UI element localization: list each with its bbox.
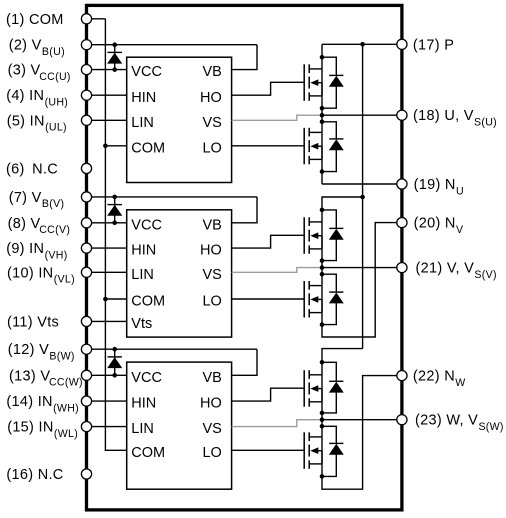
- terminal pin 7: [81, 192, 91, 202]
- node Q3 drain-diode junction: [320, 208, 325, 213]
- terminal pin 15: [81, 422, 91, 432]
- wire V output to pin21: [322, 267, 402, 269]
- node P rail junction: [360, 42, 365, 47]
- transistor Q4 (V low-side MOSFET): [304, 281, 322, 318]
- transistor Q5 (W high-side MOSFET): [304, 370, 322, 407]
- driver IC U2 (V-phase HVIC with Vts): [127, 210, 232, 337]
- svg-text:COM: COM: [131, 445, 165, 461]
- svg-text:VS: VS: [202, 115, 221, 131]
- terminal pin 13: [81, 370, 91, 380]
- wire U1 VB to pin2 rail: [232, 45, 257, 70]
- wire P distribution vertical: [362, 44, 364, 348]
- node V phase diode anode junction: [320, 258, 325, 263]
- node Q4 drain-diode junction: [320, 272, 325, 277]
- diode D8 (Q5 body diode): [322, 362, 343, 413]
- terminal pin 16: [81, 469, 91, 479]
- terminal pin 9: [81, 243, 91, 253]
- wire P branch to Q5 drain: [322, 349, 363, 477]
- terminal pin 5: [81, 115, 91, 125]
- svg-text:VCC: VCC: [131, 370, 162, 386]
- terminal pin 4: [81, 90, 91, 100]
- node U phase diode anode junction: [320, 106, 325, 111]
- wire U3 HO to Q5 gate: [232, 388, 305, 401]
- svg-text:HO: HO: [200, 396, 222, 412]
- terminal pin 10: [81, 267, 91, 277]
- svg-text:VS: VS: [202, 267, 221, 283]
- node Q5 drain-diode junction: [320, 360, 325, 365]
- node W phase output junction: [320, 417, 325, 422]
- terminal pin 14: [81, 396, 91, 406]
- wire P branch to Q3 drain: [322, 197, 363, 325]
- svg-text:(17) P: (17) P: [413, 37, 454, 53]
- svg-text:COM: COM: [131, 140, 165, 156]
- wire U3 VB to pin12 rail: [232, 349, 257, 375]
- svg-text:LO: LO: [202, 140, 221, 156]
- wire pin7 VB(V): [87, 196, 258, 198]
- wire P rail to pin17: [322, 43, 402, 45]
- terminal pin 2: [81, 40, 91, 50]
- transistor Q1 (U high-side MOSFET): [304, 64, 322, 101]
- diode D6 (Q3 body diode): [322, 210, 343, 261]
- wire U2 LO to Q4 gate: [232, 298, 305, 300]
- terminal pin 6: [81, 163, 91, 173]
- node COM-U2 junction: [103, 297, 108, 302]
- wire U2 VS sense (gray): [232, 268, 322, 273]
- svg-text:(11) Vts: (11) Vts: [7, 314, 59, 330]
- svg-text:Vts: Vts: [131, 316, 152, 332]
- wire pin4 IN(UH): [87, 94, 127, 96]
- wire pin10 IN(VL): [87, 271, 127, 273]
- wire U1 HO to Q1 gate: [232, 82, 305, 95]
- svg-text:LIN: LIN: [131, 267, 154, 283]
- svg-text:HIN: HIN: [131, 243, 156, 259]
- driver IC U3 (W-phase HVIC): [127, 362, 232, 489]
- svg-text:(16) N.C: (16) N.C: [6, 467, 63, 483]
- wire pin14 IN(WH): [87, 400, 127, 402]
- wire U output to pin18: [322, 114, 402, 116]
- wire pin15 IN(WL): [87, 426, 127, 428]
- terminal pin 1: [81, 14, 91, 24]
- wire COM stub to driver U2: [105, 298, 126, 300]
- wire pin9 IN(VH): [87, 247, 127, 249]
- wire COM rail vertical: [105, 19, 126, 451]
- wire pin5 IN(UL): [87, 119, 127, 121]
- wire pin12 VB(W): [87, 348, 258, 350]
- svg-text:VCC: VCC: [131, 64, 162, 80]
- node Q6 drain-diode junction: [320, 424, 325, 429]
- wire pin11 Vts: [87, 320, 127, 322]
- diode D4 (Q1 body diode): [322, 57, 343, 108]
- bootstrap diode D1 (VB(U)-VCC(U)): [108, 42, 122, 71]
- node W phase diode anode junction: [320, 411, 325, 416]
- transistor Q3 (V high-side MOSFET): [304, 217, 322, 254]
- wire pin1 COM to COM rail: [87, 18, 106, 20]
- wire pin2 VB(U): [87, 44, 258, 46]
- wire NU to pin19: [322, 183, 402, 185]
- diode D7 (Q4 body diode): [322, 274, 343, 324]
- terminal pin 23: [397, 415, 407, 425]
- terminal pin 17: [397, 39, 407, 49]
- wire U phase main vertical: [321, 44, 323, 184]
- terminal pin 18: [397, 110, 407, 120]
- node Q6 source junction: [320, 474, 325, 479]
- wire NW to pin22: [322, 376, 402, 490]
- svg-text:HIN: HIN: [131, 396, 156, 412]
- svg-text:LO: LO: [202, 294, 221, 310]
- driver IC U1 (U-phase HVIC): [127, 57, 232, 182]
- node Q1 drain-diode junction: [320, 55, 325, 60]
- module outline border: [87, 5, 402, 510]
- svg-text:HIN: HIN: [131, 90, 156, 106]
- wire W output to pin23: [322, 419, 402, 421]
- transistor Q6 (W low-side MOSFET): [304, 432, 322, 469]
- transistor Q2 (U low-side MOSFET): [304, 128, 322, 165]
- node P branch to V phase: [360, 195, 365, 200]
- wire U2 VB to pin7 rail: [232, 197, 257, 223]
- wire U1 LO to Q2 gate: [232, 145, 305, 147]
- bootstrap diode D2 (VB(V)-VCC(V)): [108, 195, 122, 226]
- svg-text:VCC: VCC: [131, 217, 162, 233]
- terminal pin 21: [397, 263, 407, 273]
- terminal pin 20: [397, 218, 407, 228]
- wire U3 VS sense (gray): [232, 420, 322, 427]
- svg-text:VS: VS: [202, 421, 221, 437]
- wire pin3 VCC(U): [87, 69, 127, 71]
- node Q4 source junction: [320, 322, 325, 327]
- wire U3 LO to Q6 gate: [232, 449, 305, 451]
- wire COM stub to driver U1: [105, 145, 126, 147]
- node Q2 drain-diode junction: [320, 120, 325, 125]
- terminal pin 19: [397, 179, 407, 189]
- svg-text:HO: HO: [200, 90, 222, 106]
- svg-text:HO: HO: [200, 243, 222, 259]
- svg-text:VB: VB: [202, 370, 221, 386]
- terminal pin 8: [81, 218, 91, 228]
- svg-text:COM: COM: [131, 294, 165, 310]
- diode D5 (Q2 body diode): [322, 122, 343, 172]
- terminal pin 3: [81, 65, 91, 75]
- bootstrap diode D3 (VB(W)-VCC(W)): [108, 347, 122, 378]
- node Q2 source junction: [320, 169, 325, 174]
- node U phase output junction: [320, 113, 325, 118]
- wire U2 HO to Q3 gate: [232, 235, 305, 248]
- wire NV to pin20: [322, 223, 402, 337]
- node V phase output junction: [320, 265, 325, 270]
- terminal pin 12: [81, 344, 91, 354]
- terminal pin 11: [81, 316, 91, 326]
- wire U1 VS sense (gray): [232, 115, 322, 120]
- diode D9 (Q6 body diode): [322, 426, 343, 476]
- svg-text:VB: VB: [202, 64, 221, 80]
- node COM-U1 junction: [103, 144, 108, 149]
- svg-text:LO: LO: [202, 445, 221, 461]
- svg-text:(1) COM: (1) COM: [6, 12, 64, 28]
- svg-text:VB: VB: [202, 217, 221, 233]
- wire pin8 VCC(V): [87, 222, 127, 224]
- svg-text:(6) N.C: (6) N.C: [6, 161, 58, 177]
- terminal pin 22: [397, 371, 407, 381]
- wire pin13 VCC(W): [87, 374, 127, 376]
- svg-text:LIN: LIN: [131, 115, 154, 131]
- svg-text:LIN: LIN: [131, 421, 154, 437]
